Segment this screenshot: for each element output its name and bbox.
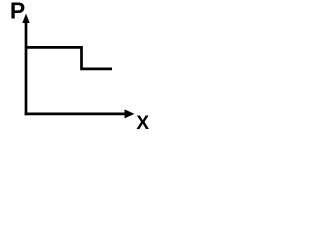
svg-text:P: P (10, 0, 25, 24)
svg-text:X: X (136, 113, 149, 134)
